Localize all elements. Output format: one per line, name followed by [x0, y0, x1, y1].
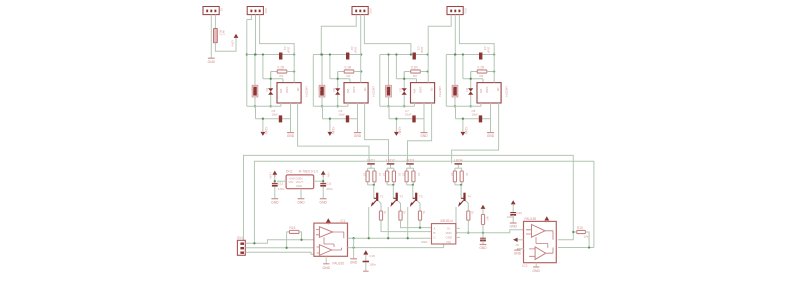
- wire LED1 down: [370, 165, 372, 168]
- svg-text:D3: D3: [399, 88, 403, 92]
- svg-text:+24V: +24V: [464, 126, 468, 135]
- wire +5V to R13: [482, 209, 484, 214]
- svg-text:100n: 100n: [369, 263, 376, 267]
- wire ch2 rail1-rail2 link: [322, 106, 324, 118]
- svg-text:T4: T4: [467, 195, 471, 199]
- wire bus1 to R15: [573, 231, 577, 233]
- svg-text:+24V: +24V: [269, 172, 273, 179]
- op-amp IC2: [524, 221, 557, 262]
- wire DC1 vout: [314, 180, 324, 182]
- wire ch3 rail2: [389, 118, 424, 120]
- wire L4 to bottom rail: [454, 97, 456, 106]
- wire ch1 bottom rail1: [247, 105, 281, 107]
- connector X1: [203, 7, 224, 15]
- resistor R13: [481, 215, 484, 225]
- ground C11 GND: [320, 199, 328, 205]
- wire to ground stub: [353, 238, 355, 258]
- svg-text:GND: GND: [510, 225, 518, 229]
- transistor T3: [410, 193, 418, 207]
- wire ch3 left rail vertical: [379, 55, 381, 107]
- op-amp IC1: [314, 223, 348, 256]
- wire DC1 vin: [277, 180, 286, 182]
- resistor R9: [379, 211, 382, 220]
- svg-text:C3: C3: [416, 47, 420, 51]
- wire LED3 split top: [407, 167, 414, 169]
- svg-text:10uF: 10uF: [272, 112, 279, 116]
- svg-text:GND: GND: [271, 200, 279, 204]
- svg-text:T3: T3: [419, 195, 423, 199]
- wire bus1 sense to IC2: [244, 155, 574, 240]
- wire R17 down: [367, 182, 369, 185]
- junction ch4 mid/rail: [462, 53, 464, 55]
- ground ch2 GND: [354, 133, 362, 139]
- wire ch4 rail1-rail2 link: [455, 106, 457, 118]
- capacitor C3b 10uF: [412, 115, 415, 122]
- junction DC1 vin: [274, 180, 276, 182]
- wire DC1 vin cap drop: [274, 174, 276, 183]
- junction ch3 feed/rail: [427, 53, 429, 55]
- svg-text:LM2574: LM2574: [438, 86, 442, 97]
- junction ch1 L/rail: [254, 53, 256, 55]
- junction R16/pin2: [285, 247, 287, 249]
- wire mux pin stub: [456, 227, 460, 229]
- junction ch3 mid/rail: [395, 53, 397, 55]
- junction C13 tap: [482, 232, 484, 234]
- wire R3 right: [420, 71, 427, 73]
- wire ch3 mid vertical: [395, 55, 397, 79]
- wire IC1 out to mux pin3: [348, 237, 432, 239]
- wire ch2 rail1 to IC: [347, 103, 349, 106]
- junction ch2 rail2: [329, 118, 331, 120]
- wire ch4 left rail vertical: [445, 55, 447, 107]
- svg-text:4K7: 4K7: [222, 30, 226, 36]
- wire C10 to ground: [512, 215, 514, 223]
- svg-text:L4: L4: [451, 87, 455, 91]
- capacitor C11: [320, 183, 326, 186]
- junction SV2/ch3 rail: [410, 53, 412, 55]
- wire ch1 to +24V arrow: [262, 119, 264, 132]
- junction ch2 L bottom: [321, 105, 323, 107]
- svg-text:R-78E5.0-1.0: R-78E5.0-1.0: [299, 170, 318, 174]
- resistor R17: [214, 29, 218, 43]
- wire R19 down: [406, 182, 408, 185]
- wire IC2 to ground: [518, 249, 524, 250]
- svg-text:4051B14: 4051B14: [440, 219, 453, 223]
- svg-text:L1: L1: [251, 87, 255, 91]
- wire X1 pin3 to R17: [214, 15, 216, 29]
- wire ch3 resistor left leg: [403, 72, 405, 79]
- wire ch1 diode vertical: [270, 72, 272, 107]
- wire to T1 base: [373, 185, 375, 198]
- power +24V ch3: [394, 126, 402, 135]
- wire SV1 pin2 down: [255, 15, 257, 55]
- wire to R3a: [406, 168, 408, 171]
- wire SV3 pin2 to ch4 rail: [454, 15, 456, 55]
- svg-text:C: C: [434, 236, 436, 240]
- capacitor C4b 10uF: [479, 115, 482, 122]
- ground IC1: [323, 256, 331, 270]
- svg-text:10uF: 10uF: [339, 112, 346, 116]
- svg-text:SV3: SV3: [464, 8, 468, 14]
- wire ch4 rail1 to IC: [480, 103, 482, 106]
- wire T4 emitter down: [455, 207, 457, 233]
- svg-text:0.1R: 0.1R: [478, 65, 485, 69]
- wire LED1 split bottom: [368, 184, 375, 186]
- analog mux IC3: [432, 224, 456, 244]
- power +5V R13 pullup: [481, 205, 486, 209]
- wire SV2 pin3 to ch3 rail: [364, 15, 411, 55]
- svg-text:LM2574: LM2574: [504, 86, 508, 97]
- wire to C13: [482, 233, 484, 238]
- wire ch4 rail2: [456, 118, 491, 120]
- wire ch2 resistor left leg: [337, 72, 339, 79]
- wire ch1 rail1-rail2 link: [255, 106, 257, 118]
- resistor R2 0.1R: [344, 70, 354, 73]
- svg-text:4k7: 4k7: [485, 216, 489, 221]
- svg-text:470u: 470u: [278, 187, 285, 191]
- junction T4 emitter: [455, 232, 457, 234]
- wire R23 down: [412, 182, 414, 185]
- svg-text:0.1R: 0.1R: [411, 65, 418, 69]
- capacitor C3a 10uF: [413, 53, 416, 60]
- capacitor C2b 10uF: [346, 115, 349, 122]
- svg-text:VDD: VDD: [446, 231, 452, 235]
- svg-text:FB: FB: [296, 88, 300, 92]
- svg-text:L2: L2: [318, 87, 322, 91]
- wire to R4 left: [471, 71, 478, 73]
- wire to mux gnd stub: [440, 244, 444, 248]
- svg-text:GND: GND: [350, 260, 358, 264]
- wire SV1 pin3 to ch1 IC: [260, 15, 295, 83]
- wire ch2 lower h-line: [330, 78, 350, 80]
- transistor T2: [390, 193, 398, 207]
- resistor R22: [392, 171, 395, 182]
- wire ch1 IC gnd pin down: [290, 103, 292, 132]
- svg-text:R16: R16: [290, 226, 296, 230]
- wire ch3 to L3: [388, 55, 390, 86]
- wire ch3 into IC top: [416, 79, 418, 83]
- svg-text:R2: R2: [347, 74, 351, 78]
- svg-text:GND: GND: [296, 184, 302, 188]
- wire ch3 diode vertical: [403, 72, 405, 107]
- junction ch1 L bottom: [254, 105, 256, 107]
- inductor L3: [386, 85, 392, 97]
- svg-text:VIN: VIN: [413, 89, 417, 94]
- wire SV2 pin1 to ch2 rail: [321, 15, 356, 55]
- junction ch2 diode top: [337, 78, 339, 80]
- wire ch2 top rail: [313, 54, 361, 56]
- svg-text:GND: GND: [479, 246, 487, 250]
- ground DC1 GND: [297, 199, 305, 205]
- connector SV2: [352, 7, 373, 15]
- resistor R1 0.1R: [277, 70, 287, 73]
- wire T2 collector to R10: [398, 201, 401, 211]
- wire R20 down: [454, 182, 456, 185]
- junction T3 emitter: [407, 237, 409, 239]
- svg-text:10uF: 10uF: [420, 47, 424, 54]
- power +24V ch1: [261, 126, 269, 135]
- junction ch3 rail2: [395, 118, 397, 120]
- wire ch3 top rail: [380, 54, 428, 56]
- svg-text:IC2: IC2: [522, 264, 527, 268]
- junction ch4 feed/resistor: [493, 70, 495, 72]
- inductor L4: [452, 85, 458, 97]
- wire ch1 resistor left leg: [270, 72, 272, 79]
- diode D3: [402, 88, 407, 95]
- wire LED1 split top: [368, 167, 375, 169]
- wire to R3b: [412, 168, 414, 171]
- wire ch4 into IC top: [482, 79, 484, 83]
- wire R12 down: [467, 220, 469, 233]
- svg-text:C4: C4: [483, 47, 487, 51]
- wire to R1 left: [271, 71, 278, 73]
- svg-text:LED1: LED1: [367, 158, 376, 162]
- svg-text:GND: GND: [485, 87, 489, 93]
- wire ch4 resistor left leg: [470, 72, 472, 79]
- wire LED4 down: [457, 165, 459, 168]
- svg-text:+24V: +24V: [398, 126, 402, 135]
- wire L1 to bottom rail: [254, 97, 256, 106]
- wire ch4 to L4: [454, 55, 456, 86]
- wire R18 down: [386, 182, 388, 185]
- svg-text:X1: X1: [220, 8, 224, 12]
- svg-text:+24V CONV: +24V CONV: [289, 177, 304, 181]
- svg-text:T2: T2: [400, 195, 404, 199]
- junction T2 base node: [392, 184, 394, 186]
- wire ch2 left rail vertical: [312, 55, 314, 107]
- wire SV4 pin2 to IC1: [245, 247, 314, 249]
- wire SV2 pin2 to ch2 IC: [360, 15, 362, 83]
- svg-text:GND: GND: [297, 200, 305, 204]
- junction ch3 L bottom: [387, 105, 389, 107]
- svg-text:GND: GND: [320, 200, 328, 204]
- dc-dc converter DC1: [286, 175, 314, 189]
- wire ch2 bottom rail1: [313, 105, 348, 107]
- junction ch1 feed/rail: [293, 53, 295, 55]
- power +5V C15: [363, 250, 368, 254]
- svg-text:GND: GND: [352, 87, 356, 93]
- wire L3 to bottom rail: [388, 97, 390, 106]
- junction T4 base node: [460, 184, 462, 186]
- svg-text:D1: D1: [265, 88, 269, 92]
- power +5V IC2: [544, 216, 549, 222]
- svg-text:GND: GND: [419, 87, 423, 93]
- transistor T4: [458, 193, 466, 207]
- svg-text:R1: R1: [280, 74, 284, 78]
- junction R15/out: [588, 246, 590, 248]
- svg-text:R15: R15: [577, 226, 583, 230]
- junction R16/pin1: [300, 239, 302, 241]
- junction SV3/ch4 rail: [454, 53, 456, 55]
- capacitor C1a 10uF: [279, 53, 282, 60]
- wire to T4 base: [460, 185, 462, 198]
- junction bus2/SV4 pin1: [253, 242, 255, 244]
- svg-text:PAU185: PAU185: [525, 217, 537, 221]
- wire mux pin stub2: [456, 236, 460, 238]
- resistor R24: [460, 171, 463, 182]
- svg-text:10uF: 10uF: [405, 112, 412, 116]
- wire LED2 split top: [387, 167, 394, 169]
- wire R4 right: [487, 71, 494, 73]
- junction SV1 pin2/rail: [254, 53, 256, 55]
- wire +5V to C15: [365, 255, 367, 261]
- regulator IC3 (buck converter): [411, 83, 435, 103]
- resistor R19: [405, 171, 408, 182]
- wire ch3 bottom rail1: [380, 105, 415, 107]
- wire ch2 to L2: [321, 55, 323, 86]
- wire ch4 diode vertical: [470, 72, 472, 107]
- wire IC1 out2: [348, 247, 441, 249]
- wire to T3 base: [412, 185, 414, 198]
- junction bus1/R15: [572, 231, 574, 233]
- wire ch4 mid vertical: [462, 55, 464, 79]
- wire ch2 diode vertical: [337, 72, 339, 107]
- wire ch3 output to LED3: [408, 103, 432, 163]
- wire L2 to bottom rail: [321, 97, 323, 106]
- resistor R11: [418, 211, 421, 220]
- junction ch3 L/rail: [387, 53, 389, 55]
- regulator IC4 (buck converter): [477, 83, 501, 103]
- wire ch2 to +24V arrow: [329, 119, 331, 132]
- wire to R4b: [461, 168, 463, 171]
- wire ch1 output to LED1: [298, 103, 369, 163]
- wire LED2 split bottom: [387, 184, 394, 186]
- junction DC1 vout: [322, 180, 324, 182]
- wire ch4 top rail: [446, 54, 494, 56]
- wire mux out to IC2: [456, 230, 524, 233]
- junction ch2 L/rail: [321, 53, 323, 55]
- junction ch2 diode bottom: [337, 105, 339, 107]
- power +5V C10: [511, 200, 516, 206]
- svg-text:10uF: 10uF: [486, 47, 490, 54]
- capacitor C1b 10uF: [279, 115, 282, 122]
- svg-text:10uF: 10uF: [286, 47, 290, 54]
- wire R11 to mux pin1 net: [419, 220, 421, 227]
- wire R13 to mux out: [482, 225, 484, 233]
- connector SV4: [237, 240, 245, 255]
- ground ch3 GND: [420, 133, 428, 139]
- resistor R18: [386, 171, 389, 182]
- wire ch3 rail1 to IC: [413, 103, 415, 106]
- wire to R1a: [367, 168, 369, 171]
- wire ch1 mid vertical: [262, 55, 264, 79]
- svg-text:10uF: 10uF: [353, 47, 357, 54]
- wire ch1 rail1 to IC: [280, 103, 282, 106]
- svg-text:GND: GND: [421, 240, 427, 244]
- svg-text:FB: FB: [363, 88, 367, 92]
- junction ch4 rail2: [462, 118, 464, 120]
- junction ch4 L/rail: [454, 53, 456, 55]
- capacitor C15: [363, 261, 369, 263]
- svg-text:IC1: IC1: [341, 219, 346, 223]
- wire DC1 vout cap drop: [322, 174, 324, 183]
- junction ch4 diode bottom: [470, 105, 472, 107]
- svg-text:DC1: DC1: [286, 170, 293, 174]
- junction ch1 mid/rail: [262, 53, 264, 55]
- wire R22 down: [393, 182, 395, 185]
- junction ch2 mid/rail: [329, 53, 331, 55]
- wire ch1 left rail vertical: [246, 20, 248, 107]
- wire DC1 gnd pin: [300, 189, 302, 199]
- wire ch3 to +24V arrow: [395, 119, 397, 132]
- junction ch4 diode top: [470, 78, 472, 80]
- wire ch1 rail2: [256, 118, 291, 120]
- wire R15 right leg: [585, 232, 589, 248]
- svg-text:470u: 470u: [326, 187, 333, 191]
- wire ch4 IC gnd pin down: [490, 103, 492, 132]
- svg-text:10k: 10k: [584, 235, 589, 239]
- wire ch4 bottom rail1: [446, 105, 481, 107]
- power +5V DC1 output: [321, 171, 326, 177]
- svg-text:DQ: DQ: [447, 240, 452, 244]
- wire T2 emitter down: [387, 207, 389, 238]
- svg-text:GND: GND: [420, 134, 428, 138]
- diode D4: [468, 88, 473, 95]
- resistor R15: [577, 230, 586, 233]
- resistor R3 0.1R: [411, 70, 421, 73]
- wire LED4 split bottom: [455, 184, 462, 186]
- junction R12/mux out: [467, 232, 469, 234]
- wire SV4 pin3 to IC1: [245, 252, 314, 254]
- junction T1 base node: [373, 184, 375, 186]
- wire X1 pin2 to ground: [210, 15, 212, 58]
- regulator IC1 (buck converter): [277, 83, 301, 103]
- diode D2: [335, 88, 340, 95]
- svg-text:GND: GND: [287, 134, 295, 138]
- svg-text:R4: R4: [480, 74, 484, 78]
- wire bus2 sense to IC2: [254, 161, 594, 247]
- wire ch2 IC gnd pin down: [357, 103, 359, 132]
- svg-text:VIN: VIN: [479, 89, 483, 94]
- resistor R16: [289, 230, 299, 233]
- wire ch3 lower h-line: [396, 78, 416, 80]
- junction ch3 diode bottom: [403, 105, 405, 107]
- ground IC2 input GND: [514, 250, 522, 255]
- svg-text:GND: GND: [208, 60, 216, 64]
- svg-text:T1: T1: [380, 195, 384, 199]
- wire LED4 split top: [455, 167, 462, 169]
- junction ch3 feed/resistor: [427, 70, 429, 72]
- wire SV1 pin1 jog: [247, 15, 252, 20]
- ground C15 GND: [363, 270, 369, 272]
- svg-text:GND: GND: [532, 269, 540, 273]
- wire LED3 split bottom: [407, 184, 414, 186]
- wire SV3 pin3 to ch4 IC: [459, 15, 494, 83]
- wire IC2 lower out: [558, 247, 594, 249]
- connector SV1: [247, 7, 268, 15]
- wire C15 to ground: [365, 262, 367, 271]
- wire T3 collector to R11: [417, 201, 420, 211]
- svg-text:VIN VOUT: VIN VOUT: [289, 180, 304, 184]
- svg-text:0.1R: 0.1R: [345, 65, 352, 69]
- junction ch1 left/rail: [246, 53, 248, 55]
- junction IC1 out/cap: [352, 237, 354, 239]
- junction ch4 L bottom: [454, 105, 456, 107]
- svg-text:GND: GND: [514, 252, 522, 256]
- transistor T1: [371, 193, 379, 207]
- wire R16 right leg: [299, 232, 302, 240]
- svg-text:PAU185: PAU185: [332, 262, 344, 266]
- svg-text:GND: GND: [323, 266, 331, 270]
- resistor R4 0.1R: [477, 70, 487, 73]
- wire to T2 base: [392, 185, 394, 198]
- wire SV4 pin1 to IC1: [245, 240, 314, 244]
- wire to R2a: [386, 168, 388, 171]
- wire R17 to +24V: [215, 38, 236, 52]
- wire ch4 to +24V arrow: [462, 119, 464, 132]
- svg-text:LM2574: LM2574: [371, 86, 375, 97]
- wire C13 to ground: [482, 241, 484, 245]
